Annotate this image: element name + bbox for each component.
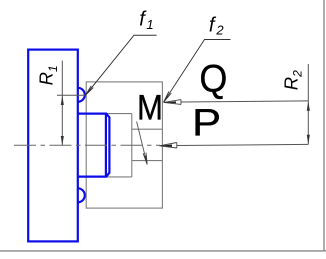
R1 extension line [57,94,85,96]
bore step face line [131,114,133,177]
force Q line [181,101,308,102]
centerline (axis, dash-dot) [14,144,160,146]
force Q arrowhead [164,100,181,105]
collar chamfer edge line [105,114,107,176]
bore small bottom line [132,160,163,162]
R2 arrow up [307,101,310,110]
R2 arrow down [307,135,310,144]
leader f1 [86,35,157,95]
R1 arrow down [61,136,64,145]
drawing frame right border [323,0,325,251]
friction force arrow inside bore [137,122,148,165]
drawing frame bottom border [0,250,326,252]
svg-text:M: M [137,88,163,128]
force P arrowhead [159,143,176,149]
leader f2 [164,40,231,103]
lower contact bump [78,188,85,202]
R1 arrow up [61,96,64,105]
svg-text:P: P [192,103,221,145]
upper contact bump [78,88,85,102]
disc (blue wheel) [28,50,78,242]
dimension R2 line [307,64,309,144]
bore large top line [86,113,132,115]
shaft collar (blue) [78,114,110,177]
bore small top line [132,128,163,130]
dimension R1 line [61,61,63,146]
housing block outline [86,82,162,208]
force P line [177,144,308,145]
bore large bottom line [86,176,132,178]
svg-text:Q: Q [199,57,227,100]
